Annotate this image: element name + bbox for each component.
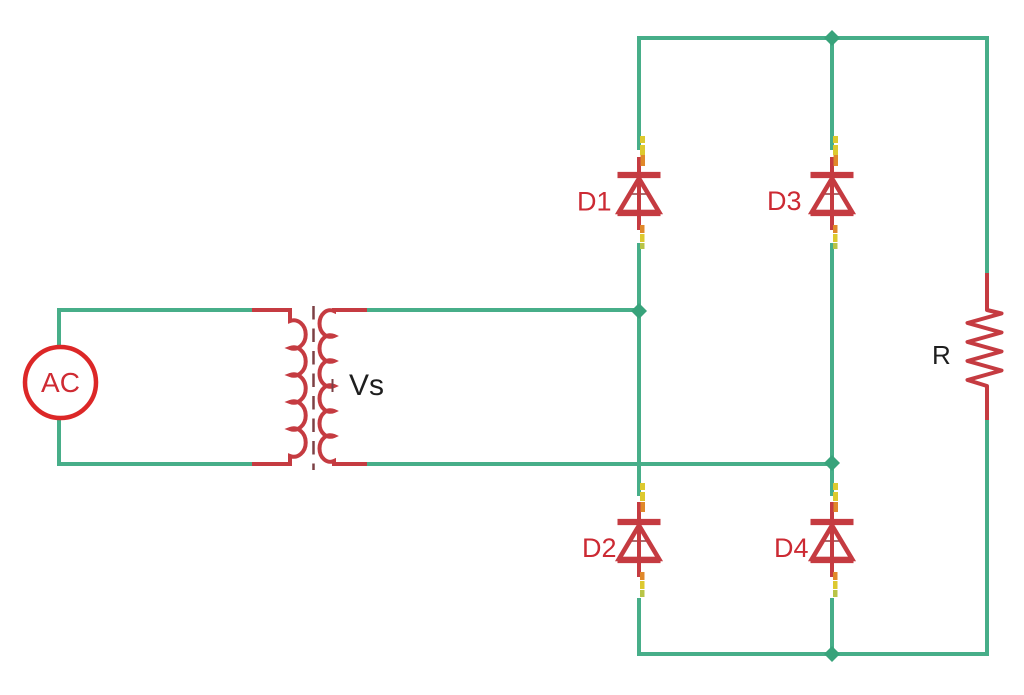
wire: bottom rail and right branch lower xyxy=(639,420,987,654)
svg-text:D2: D2 xyxy=(582,533,617,563)
wire: transformer secondary bottom to bridge node B xyxy=(367,462,830,466)
diode D2 xyxy=(618,483,661,597)
svg-text:AC: AC xyxy=(41,367,80,398)
svg-text:R: R xyxy=(932,340,951,370)
wire: AC source to transformer primary (bottom) xyxy=(59,419,252,464)
label D2 xyxy=(582,533,617,563)
junction node A (secondary top / D1 / D2) xyxy=(631,303,647,319)
label D4 xyxy=(774,533,809,563)
wire: D1-D2 branch vertical (below D2) xyxy=(637,598,641,656)
junction node (bottom rail / D4) xyxy=(824,646,840,662)
wire: D3-D4 branch vertical (between D3 and D4) xyxy=(830,243,834,496)
junction node (top rail / D3) xyxy=(824,30,840,46)
label R xyxy=(932,340,951,370)
resistor R xyxy=(968,273,1002,420)
wire: AC source to transformer primary (top) xyxy=(59,310,252,346)
junction node B (secondary bottom / D3 / D4) xyxy=(824,455,840,471)
svg-text:D3: D3 xyxy=(767,186,802,216)
wire: top rail and right branch upper xyxy=(639,38,987,273)
wire: D1-D2 branch vertical (between D1 and D2) xyxy=(637,243,641,496)
svg-text:Vs: Vs xyxy=(349,369,384,402)
AC source V1 xyxy=(25,347,96,418)
diode D1 xyxy=(618,136,661,249)
svg-text:D1: D1 xyxy=(577,187,612,217)
transformer core (dashed) xyxy=(312,306,315,470)
wire: D3-D4 branch vertical (above D3) xyxy=(830,36,834,150)
transformer T1 primary winding xyxy=(252,310,306,464)
wire: transformer secondary top to bridge node A xyxy=(367,308,637,312)
transformer polarity tick xyxy=(332,379,334,392)
label Vs xyxy=(349,369,384,402)
diode D4 xyxy=(811,483,854,597)
diode D3 xyxy=(811,136,854,249)
label D3 xyxy=(767,186,802,216)
svg-text:D4: D4 xyxy=(774,533,809,563)
transformer T1 secondary winding xyxy=(320,310,367,464)
label D1 xyxy=(577,187,612,217)
wire: D3-D4 branch vertical (below D4) xyxy=(830,598,834,656)
wire: D1-D2 branch vertical (above D1) xyxy=(637,36,641,150)
